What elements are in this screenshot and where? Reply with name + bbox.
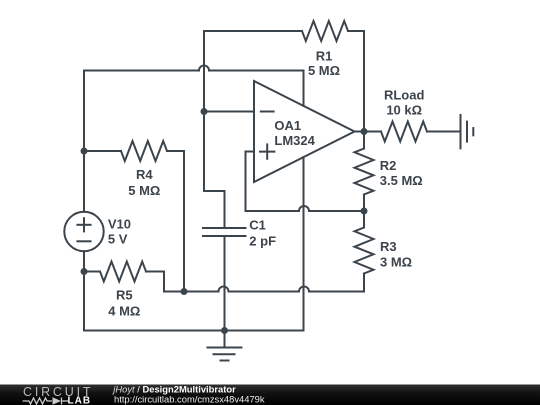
op-amp OA1 <box>254 81 355 182</box>
wire output to RLoad <box>355 131 382 133</box>
ground bottom <box>208 331 242 361</box>
label C1 value <box>249 218 276 249</box>
svg-text:3.5 MΩ: 3.5 MΩ <box>380 173 423 188</box>
node inverting junction <box>201 108 208 115</box>
wire R5 right lead jog down and mid rail with hops over C1 lead and VEE wire <box>146 272 364 292</box>
svg-text:OA1: OA1 <box>274 118 301 133</box>
resistor R3 <box>355 228 374 274</box>
svg-text:R3: R3 <box>380 239 397 254</box>
ground right (rotated) <box>461 115 474 148</box>
capacitor C1 <box>203 228 246 236</box>
wire inverting node down to C1 top <box>204 112 225 229</box>
label R1 value <box>308 49 340 78</box>
svg-text:C1: C1 <box>249 218 266 233</box>
wire R2 leads <box>363 132 365 149</box>
wire left rail top <box>83 71 85 212</box>
resistor RLoad <box>381 122 427 142</box>
svg-text:R1: R1 <box>316 49 333 64</box>
svg-text:5 V: 5 V <box>108 231 128 246</box>
wire inverting input <box>204 111 254 113</box>
svg-text:5 MΩ: 5 MΩ <box>308 63 340 78</box>
node R4 left junction <box>81 148 88 155</box>
node R2/R3 junction <box>361 208 368 215</box>
svg-text:3 MΩ: 3 MΩ <box>380 254 412 269</box>
svg-text:10 kΩ: 10 kΩ <box>386 102 422 117</box>
logo diode triangle <box>53 397 62 404</box>
svg-text:2 pF: 2 pF <box>249 233 276 248</box>
label R2 value <box>380 158 423 188</box>
label RLoad value <box>384 87 425 117</box>
node R4/R5 junction <box>181 288 188 295</box>
label R3 value <box>380 239 412 269</box>
resistor R5 <box>100 262 146 282</box>
resistor R1 <box>302 21 348 41</box>
wire C1 bottom lead to ground rail <box>224 236 226 331</box>
wire R5 left lead <box>84 271 100 273</box>
wire V+ supply rail with hop over inverting wire <box>84 66 304 107</box>
resistor R2 <box>355 149 374 195</box>
wire R4 left lead <box>84 150 121 152</box>
svg-text:4 MΩ: 4 MΩ <box>108 303 140 318</box>
svg-text:RLoad: RLoad <box>384 87 425 102</box>
svg-text:http://circuitlab.com/cmzsx48v: http://circuitlab.com/cmzsx48v4479k <box>114 394 265 405</box>
svg-text:V10: V10 <box>108 217 131 232</box>
svg-text:LAB: LAB <box>68 396 92 405</box>
svg-text:R5: R5 <box>116 288 133 303</box>
wire R1 right lead down to output node <box>348 31 364 132</box>
label R4 value <box>128 167 160 198</box>
wire top feedback from inverting node to R1 <box>204 31 302 112</box>
node ground junction <box>221 327 228 334</box>
wire V10 bottom to ground rail <box>83 251 85 330</box>
wire RLoad right lead <box>427 131 460 133</box>
svg-text:R4: R4 <box>136 167 153 182</box>
svg-text:LM324: LM324 <box>274 133 315 148</box>
label R5 value <box>108 288 140 319</box>
label OA1 designator <box>274 118 315 148</box>
resistor R4 <box>121 141 167 161</box>
wire op-amp VEE pin down to ground rail <box>84 157 304 331</box>
node output junction <box>361 128 368 135</box>
wire R4 right lead down <box>167 151 184 292</box>
wire R3 leads <box>363 211 365 228</box>
logo resistor squiggle and diode <box>23 398 68 405</box>
wire non-inverting input loop to R2/R3 node with hop over VEE wire <box>246 152 365 212</box>
node V10 minus junction <box>81 268 88 275</box>
voltage source V10 <box>64 212 103 251</box>
svg-text:R2: R2 <box>380 158 397 173</box>
svg-text:5 MΩ: 5 MΩ <box>128 183 160 198</box>
label V10 value <box>108 217 131 247</box>
